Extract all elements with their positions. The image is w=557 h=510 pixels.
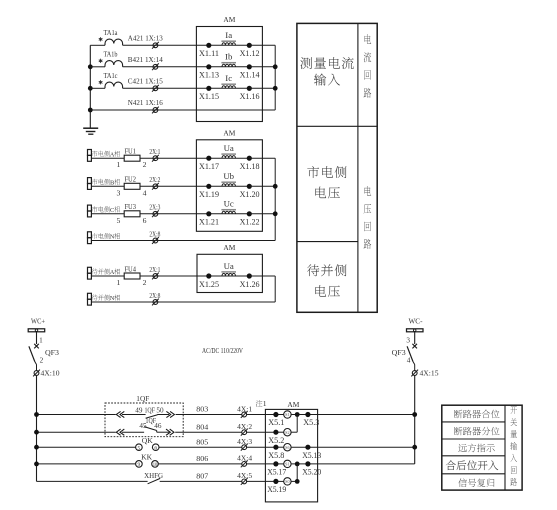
svg-text:B421 1X:14: B421 1X:14 — [128, 55, 163, 64]
wire N 2X:8 — [91, 240, 275, 242]
svg-text:A: A — [110, 151, 115, 158]
wire to AM — [247, 414, 276, 416]
pin X5.2 — [273, 430, 278, 435]
svg-text:X5.8: X5.8 — [268, 451, 284, 460]
label 电流回路 — [364, 34, 371, 44]
svg-text:X5.13: X5.13 — [302, 451, 321, 460]
junction dot — [295, 412, 300, 417]
svg-text:4X:2: 4X:2 — [237, 422, 252, 431]
switch QK contacts 5-6 — [136, 444, 143, 451]
wire up to row1 — [291, 431, 297, 433]
plug contact left — [116, 411, 120, 417]
wire — [157, 414, 169, 416]
svg-text:5: 5 — [116, 216, 120, 225]
svg-text:4X:1: 4X:1 — [237, 404, 252, 413]
svg-text:X5.3: X5.3 — [303, 418, 319, 427]
svg-text:803: 803 — [196, 405, 208, 414]
svg-text:X5.1: X5.1 — [268, 418, 284, 427]
wire up to row4 — [291, 480, 297, 482]
wire — [122, 414, 146, 416]
contact 1QF 49-50 — [146, 415, 158, 419]
junction dot right bus — [412, 412, 417, 417]
coil Ub — [209, 185, 250, 187]
svg-text:X1.11: X1.11 — [199, 49, 219, 58]
wire from WC+ — [36, 332, 38, 344]
terminal 4X:3 — [242, 445, 247, 450]
terminal 2X:1 — [153, 156, 158, 161]
opto input S19 — [276, 480, 284, 482]
svg-text:AM: AM — [223, 243, 235, 252]
wire to right bus — [249, 213, 275, 215]
wire fuse to meter — [140, 275, 209, 277]
svg-text:TA1b: TA1b — [104, 50, 118, 58]
svg-text:QF3: QF3 — [45, 349, 60, 357]
svg-text:X1.19: X1.19 — [199, 190, 219, 199]
wire fuse to meter — [140, 157, 209, 159]
current transformer TA1c — [90, 87, 105, 89]
svg-text:1: 1 — [263, 399, 267, 408]
wire — [291, 414, 415, 416]
wire to fuse FU4 — [91, 275, 124, 277]
wire from WC- — [414, 332, 416, 344]
svg-text:X5.19: X5.19 — [267, 485, 286, 494]
wire row 805 left — [37, 446, 136, 448]
svg-text:3: 3 — [406, 337, 410, 345]
measuring meter AM current box — [196, 27, 262, 122]
svg-text:Ib: Ib — [225, 52, 233, 62]
terminal 2X:8 standby — [153, 300, 158, 305]
svg-text:2X:3: 2X:3 — [149, 203, 160, 212]
svg-text:X1.12: X1.12 — [240, 49, 260, 58]
wire 市电侧A相 to fuse — [91, 157, 124, 159]
wire to AM — [247, 463, 276, 465]
wire 806 — [158, 463, 242, 465]
svg-text:5: 5 — [138, 445, 141, 451]
ground — [83, 127, 98, 129]
terminal 4X:10 — [34, 371, 39, 376]
svg-text:Ub: Ub — [223, 171, 234, 181]
legend table current/voltage loops — [297, 23, 377, 312]
svg-text:9: 9 — [138, 462, 141, 468]
svg-text:805: 805 — [196, 437, 208, 446]
connector 市电侧B相 — [88, 178, 92, 184]
svg-text:804: 804 — [196, 422, 208, 431]
terminal 4X:15 — [412, 371, 417, 376]
svg-text:X5.17: X5.17 — [267, 468, 286, 477]
pin X1.22 — [247, 211, 252, 216]
wire row 807 left — [37, 480, 148, 482]
svg-text:WC-: WC- — [409, 318, 424, 326]
coil Ua standby — [209, 275, 250, 277]
terminal 1X:15 — [153, 86, 158, 91]
wire 市电侧C相 to fuse — [91, 213, 124, 215]
contact 1QF 45-46 — [144, 427, 157, 431]
wire to right bus — [249, 66, 275, 68]
svg-text:46: 46 — [154, 422, 162, 430]
svg-text:2X:8: 2X:8 — [149, 291, 160, 300]
svg-text:FU2: FU2 — [124, 175, 136, 184]
label 信号复归 — [458, 478, 467, 487]
svg-text:S6: S6 — [285, 445, 289, 450]
pin X1.12 — [247, 43, 252, 48]
note 注1 — [256, 400, 263, 407]
right DC bus — [414, 376, 416, 464]
wire to terminal — [35, 362, 37, 365]
svg-text:N: N — [110, 234, 115, 241]
fuse FU4 — [124, 273, 140, 279]
junction dot — [273, 64, 278, 69]
label 远方指示 — [458, 444, 467, 452]
pin X1.14 — [247, 64, 252, 69]
terminal 2X:2 — [153, 184, 158, 189]
meter AM standby box — [197, 254, 262, 292]
pin X5.13 — [305, 445, 310, 450]
terminal 1X:14 — [153, 64, 158, 69]
pin X1.19 — [206, 184, 211, 189]
svg-text:4X:3: 4X:3 — [237, 437, 252, 446]
svg-text:X1.26: X1.26 — [240, 280, 260, 289]
svg-text:FU1: FU1 — [124, 147, 136, 156]
junction dot N421 row — [88, 108, 93, 113]
binary input module AM box — [265, 409, 317, 502]
wire to AM — [247, 480, 276, 482]
meter AM voltage box — [196, 140, 262, 232]
pin X5.8 — [273, 445, 278, 450]
wire to right bus — [249, 87, 275, 89]
connector 市电侧A相 — [88, 150, 92, 156]
wire to right bus — [249, 275, 275, 277]
svg-text:Ia: Ia — [225, 30, 232, 40]
svg-text:10: 10 — [153, 463, 158, 468]
svg-text:2: 2 — [143, 278, 147, 287]
breaker QF3 right contact — [412, 344, 417, 349]
svg-text:KK: KK — [141, 453, 153, 461]
svg-text:FU3: FU3 — [124, 202, 136, 211]
svg-text:S2: S2 — [285, 430, 289, 435]
svg-text:FU4: FU4 — [124, 264, 136, 273]
contact XHFG — [148, 478, 161, 483]
wire 803 — [176, 414, 242, 416]
coil Uc — [209, 213, 250, 215]
svg-text:Ua: Ua — [224, 143, 234, 153]
plug contact left — [116, 429, 120, 435]
svg-text:X1.14: X1.14 — [240, 71, 261, 80]
terminal 2X:1 standby — [153, 274, 158, 279]
svg-text:X1.16: X1.16 — [240, 92, 260, 101]
wire row 806 left — [37, 463, 136, 465]
junction dot right bus — [412, 445, 417, 450]
fuse FU3 — [124, 211, 140, 217]
wire row 804 left — [37, 431, 116, 433]
label 待并侧电压 — [307, 264, 319, 276]
wire 807 — [160, 480, 242, 482]
wire A421 — [123, 44, 209, 46]
pin X1.18 — [247, 156, 252, 161]
svg-text:4X:10: 4X:10 — [41, 370, 60, 378]
terminal 1X:13 — [153, 43, 158, 48]
svg-text:1QF: 1QF — [136, 394, 149, 403]
svg-text:3: 3 — [116, 188, 120, 197]
svg-text:50: 50 — [156, 406, 164, 414]
wire B421 — [123, 66, 209, 68]
svg-text:6: 6 — [154, 445, 157, 451]
junction dot — [273, 86, 278, 91]
opto input S1 — [276, 414, 284, 416]
svg-text:C421 1X:15: C421 1X:15 — [128, 76, 163, 85]
terminal 4X:2 — [242, 430, 247, 435]
coil Ic — [209, 87, 250, 89]
terminal 1X:16 — [153, 108, 158, 113]
pin X1.13 — [206, 64, 211, 69]
wire to right bus — [249, 185, 275, 187]
wire to AM — [247, 446, 276, 448]
pin X1.17 — [206, 156, 211, 161]
svg-text:X1.17: X1.17 — [199, 162, 219, 171]
svg-text:Ua: Ua — [224, 261, 234, 271]
terminal 4X:4 — [242, 462, 247, 467]
svg-text:2X:8: 2X:8 — [149, 229, 160, 238]
svg-text:B: B — [110, 179, 114, 186]
svg-text:4: 4 — [143, 188, 147, 197]
pin X1.11 — [206, 43, 211, 48]
wire fuse to meter — [140, 185, 209, 187]
right return bus voltage — [274, 158, 276, 240]
svg-text:X1.22: X1.22 — [240, 218, 260, 227]
wire to right bus — [249, 44, 275, 46]
left DC bus — [36, 376, 38, 482]
coil Ua — [209, 157, 250, 159]
svg-text:806: 806 — [196, 454, 208, 463]
pin X5.20 — [305, 461, 310, 466]
wire — [122, 431, 144, 433]
label 测量电流输入 — [300, 57, 312, 69]
svg-text:4: 4 — [407, 356, 411, 364]
svg-text:AM: AM — [223, 15, 235, 24]
svg-text:X1.20: X1.20 — [240, 190, 260, 199]
coil Ia — [209, 44, 250, 46]
svg-text:Uc: Uc — [224, 199, 234, 209]
connector 待并侧N相 — [88, 293, 92, 299]
right return bus standby — [274, 276, 276, 302]
svg-text:X5.20: X5.20 — [302, 468, 321, 477]
pin X1.20 — [247, 184, 252, 189]
svg-text:Ic: Ic — [225, 73, 232, 83]
wire — [291, 463, 415, 465]
svg-text:TA1a: TA1a — [104, 29, 119, 37]
label 开关量输入回路 — [510, 406, 517, 414]
pin X1.15 — [206, 86, 211, 91]
svg-text:4X:15: 4X:15 — [420, 370, 439, 378]
plug contact right — [170, 411, 174, 417]
wire C421 — [123, 87, 209, 89]
binary input legend table — [442, 405, 522, 490]
svg-text:2X:2: 2X:2 — [149, 175, 160, 184]
svg-text:QF3: QF3 — [392, 349, 407, 357]
svg-text:A: A — [110, 269, 115, 276]
svg-text:XHFG: XHFG — [144, 472, 163, 480]
svg-text:X1.21: X1.21 — [199, 218, 219, 227]
svg-text:C: C — [110, 207, 114, 214]
pin X5.19 — [273, 479, 278, 484]
pin X1.21 — [206, 211, 211, 216]
label 断路器分位 — [454, 427, 462, 435]
terminal 4X:5 — [242, 479, 247, 484]
terminal 2X:8 — [153, 238, 158, 243]
svg-text:45: 45 — [139, 422, 147, 430]
label 市电侧电压 — [307, 166, 319, 178]
wire N standby — [91, 301, 275, 303]
svg-text:4X:5: 4X:5 — [237, 471, 252, 480]
breaker QF3 left contact — [34, 344, 39, 349]
opto input S6 — [276, 446, 284, 448]
right return bus current — [274, 45, 276, 110]
svg-text:2: 2 — [40, 356, 44, 364]
wire 804 — [175, 431, 242, 433]
wire — [157, 431, 169, 433]
connector 市电侧N相 — [88, 232, 92, 238]
svg-text:49: 49 — [135, 406, 143, 414]
junction dot TA1c row — [88, 86, 93, 91]
terminal 2X:3 — [153, 211, 158, 216]
svg-text:X1.18: X1.18 — [240, 162, 260, 171]
wire N421 — [90, 109, 275, 111]
terminal 4X:1 — [242, 412, 247, 417]
connector 市电侧C相 — [88, 205, 92, 211]
label 断路器合位 — [454, 410, 462, 418]
pin X1.25 — [206, 273, 211, 278]
svg-text:X1.25: X1.25 — [199, 280, 219, 289]
label 电压回路 — [364, 186, 371, 196]
svg-text:S1: S1 — [285, 412, 289, 417]
svg-text:A421 1X:13: A421 1X:13 — [128, 33, 163, 42]
svg-text:X5.2: X5.2 — [268, 436, 284, 445]
svg-text:TA1c: TA1c — [104, 72, 118, 80]
wire to right bus — [249, 157, 275, 159]
svg-text:AM: AM — [223, 129, 235, 138]
svg-text:1: 1 — [39, 337, 43, 345]
svg-text:S0: S0 — [285, 479, 289, 484]
wire 805 — [159, 446, 242, 448]
fuse FU1 — [124, 155, 140, 161]
current transformer TA1b — [90, 66, 105, 68]
svg-text:4X:4: 4X:4 — [237, 454, 252, 463]
label 合后位开入 — [446, 460, 456, 470]
svg-text:QK: QK — [142, 437, 154, 445]
connector 待并侧A相 — [88, 267, 92, 273]
svg-text:2X:1: 2X:1 — [149, 147, 160, 156]
opto input S11 — [276, 463, 284, 465]
bus WC+ — [28, 329, 45, 332]
svg-text:S1: S1 — [285, 462, 289, 467]
switch KK contacts 9-10 — [136, 461, 143, 468]
junction dot — [295, 462, 300, 467]
wire 市电侧B相 to fuse — [91, 185, 124, 187]
svg-text:2: 2 — [143, 160, 147, 169]
junction dot TA1b row — [88, 64, 93, 69]
wire to terminal — [413, 362, 415, 365]
svg-text:1QF: 1QF — [144, 406, 155, 414]
wire to AM — [247, 431, 276, 433]
pin X1.16 — [247, 86, 252, 91]
plug-in unit 1QF dashed box — [105, 403, 183, 437]
current transformer TA1a — [90, 44, 105, 46]
svg-text:WC+: WC+ — [31, 318, 45, 326]
svg-text:N421 1X:16: N421 1X:16 — [128, 98, 163, 107]
pin X5.1 — [273, 412, 278, 417]
pin X5.17 — [273, 461, 278, 466]
bus WC- — [407, 329, 424, 332]
svg-text:X1.13: X1.13 — [199, 71, 219, 80]
junction dot — [273, 211, 278, 216]
opto input S2 — [276, 431, 284, 433]
pin X1.26 — [247, 273, 252, 278]
svg-text:AC/DC 110/220V: AC/DC 110/220V — [202, 348, 243, 355]
wire row 803 left — [37, 414, 116, 416]
svg-text:N: N — [110, 295, 115, 302]
svg-text:6: 6 — [143, 216, 147, 225]
junction dot — [273, 184, 278, 189]
junction dot — [295, 479, 300, 484]
fuse FU2 — [124, 183, 140, 189]
svg-text:2X:1: 2X:1 — [149, 265, 160, 274]
plug contact right — [170, 429, 174, 435]
svg-text:807: 807 — [196, 472, 208, 481]
svg-text:1: 1 — [116, 160, 120, 169]
pin X5.3 — [305, 412, 310, 417]
ground bus vertical wire — [89, 45, 91, 128]
coil Ib — [209, 66, 250, 68]
wire — [291, 446, 415, 448]
wire fuse to meter — [140, 213, 209, 215]
svg-text:X1.15: X1.15 — [199, 92, 219, 101]
svg-text:1: 1 — [116, 278, 120, 287]
svg-text:AM: AM — [287, 400, 299, 409]
